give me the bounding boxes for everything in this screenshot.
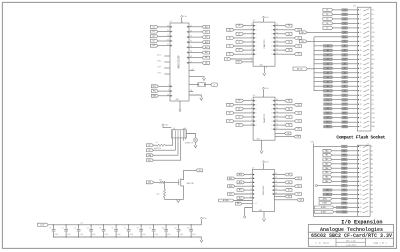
U3 right pin row 7 bbox=[275, 124, 285, 126]
svg-text:D: D bbox=[256, 54, 257, 56]
capacitor C10 0.1uF bbox=[165, 225, 167, 230]
svg-text:/CE1: /CE1 bbox=[371, 32, 375, 34]
svg-text:1.3k: 1.3k bbox=[156, 193, 159, 195]
U2 LE pin row bbox=[231, 58, 253, 60]
U1 left pin row 31 net D1 bbox=[158, 31, 170, 33]
svg-text:/D5: /D5 bbox=[371, 19, 374, 21]
CF1 pin row 3 net D5 bbox=[333, 18, 342, 20]
U1 left stub x ML bbox=[164, 61, 170, 63]
U3 right pin row 5 bbox=[275, 116, 285, 118]
svg-text:C12: C12 bbox=[187, 228, 190, 230]
U3 bottom right pin LE bbox=[275, 132, 285, 134]
U2 power pin 3.3v bbox=[263, 18, 265, 22]
svg-text:10: 10 bbox=[360, 50, 362, 52]
svg-text:40: 40 bbox=[167, 94, 169, 96]
svg-text:/3v: /3v bbox=[371, 146, 373, 148]
cap row bottom bus wire bbox=[54, 236, 202, 238]
capacitor C8 0.1uF bbox=[140, 225, 142, 230]
svg-text:D: D bbox=[256, 104, 257, 106]
svg-text:D3: D3 bbox=[326, 10, 328, 12]
svg-text:D0: D0 bbox=[344, 95, 346, 97]
svg-text:D: D bbox=[256, 25, 257, 27]
svg-text:OE: OE bbox=[343, 41, 345, 43]
svg-text:17: 17 bbox=[360, 81, 362, 83]
svg-text:D: D bbox=[256, 108, 257, 110]
svg-text:a 3v: a 3v bbox=[80, 223, 83, 225]
bottom rail wire and ground bbox=[165, 198, 184, 200]
U5 left pin row AD2 bbox=[235, 177, 252, 179]
svg-text:D: D bbox=[256, 42, 257, 44]
3.3v supply tag for cap row bbox=[38, 223, 49, 226]
svg-text:D0: D0 bbox=[171, 26, 173, 28]
CF1 pin row 18 net A1 bbox=[314, 85, 342, 87]
svg-text:D3: D3 bbox=[298, 194, 300, 196]
U3 left pin row 5 bbox=[244, 116, 254, 118]
U3 left pin row 4 bbox=[234, 112, 253, 114]
CF1 pin row 22 net D2 bbox=[333, 103, 342, 105]
bus label A[0..10] bbox=[293, 67, 307, 71]
svg-text:Q: Q bbox=[271, 125, 272, 127]
svg-text:D1: D1 bbox=[327, 99, 329, 101]
svg-text:22: 22 bbox=[190, 41, 192, 43]
svg-text:C1: C1 bbox=[49, 228, 51, 230]
svg-text:Q: Q bbox=[271, 117, 272, 119]
U3 right pin row 1 bbox=[275, 100, 285, 102]
U3 right pin row 6 bbox=[275, 120, 294, 122]
svg-text:D2: D2 bbox=[153, 45, 155, 47]
svg-text:Q: Q bbox=[271, 37, 272, 39]
resistor R2 3.3k bbox=[160, 181, 166, 183]
U1 left stub A 1 C bbox=[164, 55, 170, 57]
U1 left stub x VP bbox=[164, 67, 170, 69]
svg-text:D0: D0 bbox=[171, 45, 173, 47]
svg-text:21: 21 bbox=[360, 99, 362, 101]
J1 pin row 7 net PA5 bbox=[332, 172, 341, 174]
U5 bottom right pin IRQ bbox=[274, 196, 285, 198]
svg-text:Q: Q bbox=[271, 33, 272, 35]
svg-text:K. G. Pater: K. G. Pater bbox=[315, 242, 329, 245]
CF1 pin row 12 net VCC bbox=[314, 58, 342, 60]
svg-text:0.1uF: 0.1uF bbox=[130, 234, 134, 236]
svg-text:RES: RES bbox=[343, 203, 346, 205]
svg-text:D4: D4 bbox=[326, 14, 328, 16]
U5 left pin row AD4 bbox=[245, 181, 253, 183]
svg-text:D0: D0 bbox=[171, 86, 173, 88]
J1 pin row 16 net A GND bbox=[334, 211, 341, 213]
U1 power pin 3.3v bbox=[181, 17, 183, 23]
svg-text:D0: D0 bbox=[171, 41, 173, 43]
svg-text:D2: D2 bbox=[298, 178, 300, 180]
svg-text:x SO: x SO bbox=[157, 73, 161, 75]
svg-text:C9: C9 bbox=[149, 228, 151, 230]
svg-text:C3: C3 bbox=[74, 228, 76, 230]
svg-text:18: 18 bbox=[275, 181, 277, 183]
svg-text:D0: D0 bbox=[171, 31, 173, 33]
connector J1 I/O Expansion body bbox=[357, 145, 370, 216]
svg-text:3.3v: 3.3v bbox=[183, 16, 187, 18]
svg-text:D0: D0 bbox=[153, 41, 155, 43]
svg-text:/B1: /B1 bbox=[371, 194, 373, 196]
U1 left pin row RDY bbox=[158, 85, 170, 87]
U5 right pin row D3 bbox=[274, 193, 294, 195]
svg-text:30: 30 bbox=[167, 40, 169, 42]
svg-text:U5: U5 bbox=[252, 167, 254, 169]
svg-text:D4: D4 bbox=[288, 182, 290, 184]
svg-text:/RES: /RES bbox=[371, 122, 375, 124]
svg-text:15: 15 bbox=[360, 72, 362, 74]
U2 left pin row 6 bbox=[234, 45, 253, 47]
U1 left pin row RES bbox=[158, 95, 170, 97]
U2 left pin row 8 bbox=[234, 53, 253, 55]
svg-text:23: 23 bbox=[360, 108, 362, 110]
U5 left pin row WE bbox=[242, 203, 252, 205]
svg-text:0.1uF: 0.1uF bbox=[105, 234, 109, 236]
U5 bottom right pin RST bbox=[274, 199, 297, 201]
U1 left stub x SO bbox=[164, 73, 170, 75]
RTC extra pins down bbox=[182, 138, 184, 141]
svg-text:SuRF 2.7uF: SuRF 2.7uF bbox=[185, 143, 193, 145]
svg-text:D: D bbox=[256, 121, 257, 123]
svg-text:11: 11 bbox=[360, 54, 362, 56]
CF1 pin row 4 net D6 bbox=[333, 22, 342, 24]
svg-text:Q: Q bbox=[271, 100, 272, 102]
svg-text:D7: D7 bbox=[344, 27, 346, 29]
svg-text:25: 25 bbox=[360, 117, 362, 119]
svg-text:CE1: CE1 bbox=[343, 32, 346, 34]
U3 right pin row 2 bbox=[275, 104, 294, 106]
CF1 pin row 24 net RDY bbox=[333, 112, 342, 114]
svg-text:/D4: /D4 bbox=[371, 14, 374, 16]
supercap C13 circle bbox=[186, 134, 195, 139]
U2 OE pin row bbox=[242, 61, 253, 63]
U1 right pin row A13 bbox=[189, 36, 202, 38]
svg-text:D1: D1 bbox=[153, 31, 155, 33]
svg-text:U1: U1 bbox=[170, 21, 172, 23]
svg-text:+ 3v: + 3v bbox=[183, 128, 186, 130]
J1 pin row 13 net A IRQ bbox=[332, 198, 341, 200]
U2 right pin row 1 bbox=[275, 25, 285, 27]
svg-text:D0: D0 bbox=[171, 91, 173, 93]
IC U5 body bbox=[252, 169, 274, 211]
svg-text:OE: OE bbox=[237, 61, 239, 63]
CF1 pin row 23 net WE bbox=[333, 108, 342, 110]
svg-text:C11: C11 bbox=[174, 228, 177, 230]
CF1 pin row 17 net A2 bbox=[314, 81, 342, 83]
svg-text:16: 16 bbox=[360, 211, 362, 213]
svg-text:Q: Q bbox=[271, 42, 272, 44]
U1 left pin row 28 net D6 bbox=[158, 35, 170, 37]
svg-text:D: D bbox=[256, 100, 257, 102]
capacitor C2 0.1uF bbox=[65, 225, 67, 230]
svg-text:Q: Q bbox=[271, 25, 272, 27]
svg-text:3.3v: 3.3v bbox=[310, 142, 314, 144]
svg-text:D0: D0 bbox=[171, 36, 173, 38]
svg-text:18: 18 bbox=[190, 56, 192, 58]
U1 right pin row A11 bbox=[189, 46, 202, 48]
U2 right pin row 3 bbox=[275, 33, 285, 35]
svg-text:D6: D6 bbox=[326, 23, 328, 25]
svg-text:C7: C7 bbox=[124, 228, 126, 230]
svg-text:D4: D4 bbox=[344, 14, 346, 16]
svg-text:D: D bbox=[256, 112, 257, 114]
CF1 pin row 13 net A6 bbox=[314, 63, 342, 65]
svg-text:3.3v: 3.3v bbox=[265, 161, 269, 163]
svg-text:15: 15 bbox=[275, 193, 277, 195]
svg-text:RS: RS bbox=[300, 199, 302, 201]
svg-text:Q: Q bbox=[271, 121, 272, 123]
svg-text:D6: D6 bbox=[298, 186, 300, 188]
svg-text:X1: X1 bbox=[148, 145, 150, 147]
svg-text:C5: C5 bbox=[99, 228, 101, 230]
U2 right pin row 6 bbox=[275, 45, 294, 47]
U1 left pin row 33 net D3 bbox=[158, 26, 170, 28]
U3 bottom right pin OE bbox=[275, 136, 294, 138]
svg-text:Q: Q bbox=[271, 54, 272, 56]
rail bottom wire to socket bbox=[314, 216, 358, 218]
U3 power pin 3.3v bbox=[263, 89, 265, 97]
svg-text:/D0: /D0 bbox=[371, 95, 374, 97]
U2 right pin row 8 bbox=[275, 53, 294, 55]
U5 right pin row D6 bbox=[274, 185, 294, 187]
U2 left pin row 2 bbox=[234, 29, 253, 31]
svg-text:WE: WE bbox=[327, 108, 330, 110]
svg-text:D1: D1 bbox=[288, 190, 290, 192]
U1 right pin row A10 bbox=[189, 52, 202, 54]
svg-text:OE: OE bbox=[297, 136, 299, 138]
U1 right pin row A15 bbox=[189, 26, 202, 28]
cap row right 3.3v arrow bbox=[201, 219, 203, 225]
svg-text:D3: D3 bbox=[344, 10, 346, 12]
supercap ground bbox=[195, 142, 197, 145]
J1 pin row 11 net PB0 bbox=[333, 189, 341, 191]
svg-text:W65C02S8P: W65C02S8P bbox=[178, 55, 180, 69]
U1 right stub BE bbox=[189, 91, 193, 93]
svg-text:WE: WE bbox=[343, 108, 346, 110]
svg-text:28: 28 bbox=[167, 35, 169, 37]
cap row top bus wire bbox=[48, 224, 201, 226]
CF1 pin row 25 net CE2 bbox=[333, 117, 342, 119]
svg-text:D0: D0 bbox=[288, 174, 290, 176]
svg-text:14: 14 bbox=[360, 68, 362, 70]
U5 left pin row AD0 bbox=[245, 174, 253, 176]
svg-text:CE2: CE2 bbox=[326, 117, 329, 119]
svg-text:17: 17 bbox=[275, 185, 277, 187]
svg-text:BSS 138: BSS 138 bbox=[187, 183, 194, 185]
capacitor C4 0.1uF bbox=[90, 225, 92, 230]
svg-text:x2: x2 bbox=[156, 142, 158, 144]
svg-text:74AC573: 74AC573 bbox=[263, 113, 266, 123]
U5 bottom left open terminal bbox=[245, 208, 253, 216]
capacitor C3 0.1uF bbox=[78, 225, 80, 230]
svg-text:1 B: 1 B bbox=[190, 90, 192, 92]
svg-text:3.3v: 3.3v bbox=[164, 125, 168, 127]
svg-text:0.1uF: 0.1uF bbox=[155, 234, 159, 236]
U2 left pin row 5 bbox=[244, 41, 254, 43]
svg-text:31: 31 bbox=[167, 30, 169, 32]
U3 left pin row 1 bbox=[244, 100, 254, 102]
CF1 pin row 5 net D7 bbox=[333, 27, 342, 29]
svg-text:D0: D0 bbox=[327, 95, 329, 97]
svg-text:0.1uF: 0.1uF bbox=[92, 234, 96, 236]
RTC pin wire to SDA bbox=[154, 138, 179, 155]
U1 right pin VSS to ground bbox=[189, 95, 201, 98]
svg-text:U2: U2 bbox=[253, 20, 255, 22]
svg-text:13: 13 bbox=[360, 198, 362, 200]
svg-text:/OE: /OE bbox=[371, 41, 374, 43]
J1 pin row 14 net A RES bbox=[332, 202, 341, 204]
U5 left pin row AD5 bbox=[245, 197, 253, 199]
U1 right stub PHI2 bbox=[189, 70, 195, 72]
svg-text:02: 02 bbox=[214, 85, 216, 87]
svg-text:23: 23 bbox=[190, 36, 192, 38]
svg-text:0.1uF: 0.1uF bbox=[55, 234, 59, 236]
CF1 pin row 11 net A7 bbox=[314, 54, 342, 56]
svg-text:3v: 3v bbox=[343, 146, 345, 148]
output tag bbox=[196, 169, 203, 172]
CF1 pin row 14 net A5 bbox=[314, 67, 342, 69]
svg-text:14: 14 bbox=[360, 203, 362, 205]
RTC pin wire to X2 bbox=[154, 138, 176, 150]
svg-text:LE: LE bbox=[287, 133, 289, 135]
svg-text:RES: RES bbox=[343, 122, 346, 124]
svg-text:Q: Q bbox=[271, 112, 272, 114]
svg-text:/WE: /WE bbox=[371, 108, 374, 110]
address bus vertical wire bbox=[313, 37, 315, 91]
J1 pin row 3 net PA1 bbox=[332, 154, 341, 156]
svg-text:SCL: SCL bbox=[148, 160, 151, 162]
svg-text:Q: Q bbox=[271, 46, 272, 48]
U5 left pin row AD6 bbox=[235, 185, 252, 187]
svg-text:WE: WE bbox=[237, 203, 240, 205]
capacitor C11 0.1uF bbox=[178, 225, 180, 230]
RTC pin wire to X1 bbox=[165, 138, 173, 145]
U3 right pin row 4 bbox=[275, 112, 294, 114]
svg-text:3.3v: 3.3v bbox=[265, 17, 269, 19]
svg-text:LE: LE bbox=[226, 59, 228, 61]
CF1 pin row 1 net D3 bbox=[333, 9, 342, 11]
svg-text:24: 24 bbox=[190, 30, 192, 32]
svg-text:32: 32 bbox=[167, 44, 169, 46]
svg-text:13: 13 bbox=[360, 63, 362, 65]
J1 pin row 9 net PA7 bbox=[332, 180, 341, 182]
svg-text:Compact Flash Socket: Compact Flash Socket bbox=[336, 135, 385, 141]
svg-text:x 37: x 37 bbox=[191, 69, 194, 71]
svg-text:74AC573: 74AC573 bbox=[263, 39, 266, 49]
svg-text:3.3k: 3.3k bbox=[159, 179, 162, 181]
svg-text:19: 19 bbox=[360, 90, 362, 92]
CF1 pin row 19 net A0 bbox=[314, 90, 342, 92]
CF1 pin row 2 net D4 bbox=[333, 13, 342, 15]
U2 left pin row 7 bbox=[244, 49, 254, 51]
resistor R3 1.3k vertical bbox=[164, 182, 166, 189]
title block frame bbox=[308, 225, 393, 247]
svg-text:D5: D5 bbox=[326, 18, 328, 20]
input tag for MOSFET gate bbox=[146, 181, 154, 184]
U1 right pin to ground bbox=[189, 77, 204, 78]
svg-text:Q: Q bbox=[271, 29, 272, 31]
svg-text:x ML: x ML bbox=[157, 61, 161, 63]
svg-text:25: 25 bbox=[190, 25, 192, 27]
U5 right pin row D4 bbox=[274, 181, 285, 183]
U5 left pin row AD3 bbox=[235, 193, 252, 195]
svg-text:0.1uF: 0.1uF bbox=[180, 234, 184, 236]
IC U1 65C02 CPU body bbox=[170, 23, 189, 101]
svg-text:Q: Q bbox=[271, 108, 272, 110]
svg-text:/CE2: /CE2 bbox=[371, 117, 375, 119]
U3 left pin row 2 bbox=[234, 104, 253, 106]
J1 pin row 12 net PB1 bbox=[333, 193, 341, 195]
capacitor C12 0.1uF bbox=[190, 225, 192, 230]
U2 left pin row 1 bbox=[244, 25, 254, 27]
svg-text:D6: D6 bbox=[153, 36, 155, 38]
svg-text:D: D bbox=[256, 125, 257, 127]
U2 left pin row 4 bbox=[234, 37, 253, 39]
svg-text:22: 22 bbox=[360, 104, 362, 106]
svg-text:20: 20 bbox=[275, 173, 277, 175]
U3 right pin row 8 bbox=[275, 128, 294, 130]
CF1 pin row 21 net D1 bbox=[333, 99, 342, 101]
svg-text:24: 24 bbox=[360, 113, 362, 115]
cap row right ground bbox=[201, 237, 203, 240]
svg-text:33: 33 bbox=[167, 25, 169, 27]
svg-text:26: 26 bbox=[360, 122, 362, 124]
svg-text:C6: C6 bbox=[112, 228, 114, 230]
svg-text:Page 1 of 1: Page 1 of 1 bbox=[373, 242, 387, 245]
U5 right pin row D1 bbox=[274, 189, 285, 191]
svg-text:16: 16 bbox=[275, 189, 277, 191]
svg-text:C8: C8 bbox=[137, 228, 139, 230]
svg-text:PB1: PB1 bbox=[343, 194, 346, 196]
svg-text:/D2: /D2 bbox=[371, 104, 374, 106]
svg-text:RES: RES bbox=[326, 122, 329, 124]
svg-text:Rev 1.00: Rev 1.00 bbox=[346, 240, 356, 243]
svg-text:Q: Q bbox=[271, 104, 272, 106]
IC U2 body bbox=[253, 22, 275, 66]
U3 left pin row 6 bbox=[234, 120, 253, 122]
U5 left long pin row CS bbox=[234, 200, 252, 202]
capacitor C5 0.1uF bbox=[103, 225, 105, 230]
svg-text:U3: U3 bbox=[253, 95, 255, 97]
U1 right pin row A8 bbox=[189, 62, 202, 64]
CF1 pin row 8 net OE bbox=[307, 40, 342, 42]
U3 left pin row 7 bbox=[244, 124, 254, 126]
svg-text:65C02 SBC2 CF-Card/RTC 3.3V: 65C02 SBC2 CF-Card/RTC 3.3V bbox=[311, 233, 392, 239]
J1 pin row 10 net NC bbox=[315, 185, 317, 187]
CF1 pin row 7 net A10 bbox=[314, 36, 342, 38]
svg-text:0.1uF: 0.1uF bbox=[167, 234, 171, 236]
svg-text:0.1uF: 0.1uF bbox=[117, 234, 121, 236]
svg-text:/D6: /D6 bbox=[371, 23, 374, 25]
U2 right pin row 7 bbox=[275, 49, 285, 51]
U2 right pin row 4 bbox=[275, 37, 294, 39]
svg-text:17: 17 bbox=[190, 61, 192, 63]
capacitor C1 0.1uF bbox=[53, 225, 55, 230]
svg-text:/RDY: /RDY bbox=[371, 113, 375, 115]
CF1 pin row 20 net D0 bbox=[333, 94, 342, 96]
svg-text:D5: D5 bbox=[344, 18, 346, 20]
svg-text:Q: Q bbox=[271, 129, 272, 131]
svg-text:/B0: /B0 bbox=[371, 190, 373, 192]
svg-text:Analogue Technologies: Analogue Technologies bbox=[320, 227, 383, 233]
svg-text:D: D bbox=[256, 29, 257, 31]
svg-text:0.1uF: 0.1uF bbox=[67, 234, 71, 236]
svg-text:PB0: PB0 bbox=[326, 190, 329, 192]
U3 right pin row 3 bbox=[275, 108, 285, 110]
svg-text:C4: C4 bbox=[87, 228, 89, 230]
svg-text:15: 15 bbox=[360, 207, 362, 209]
J1 pin row 4 net PA2 bbox=[332, 159, 341, 161]
svg-text:a 3.3v: a 3.3v bbox=[40, 224, 44, 226]
